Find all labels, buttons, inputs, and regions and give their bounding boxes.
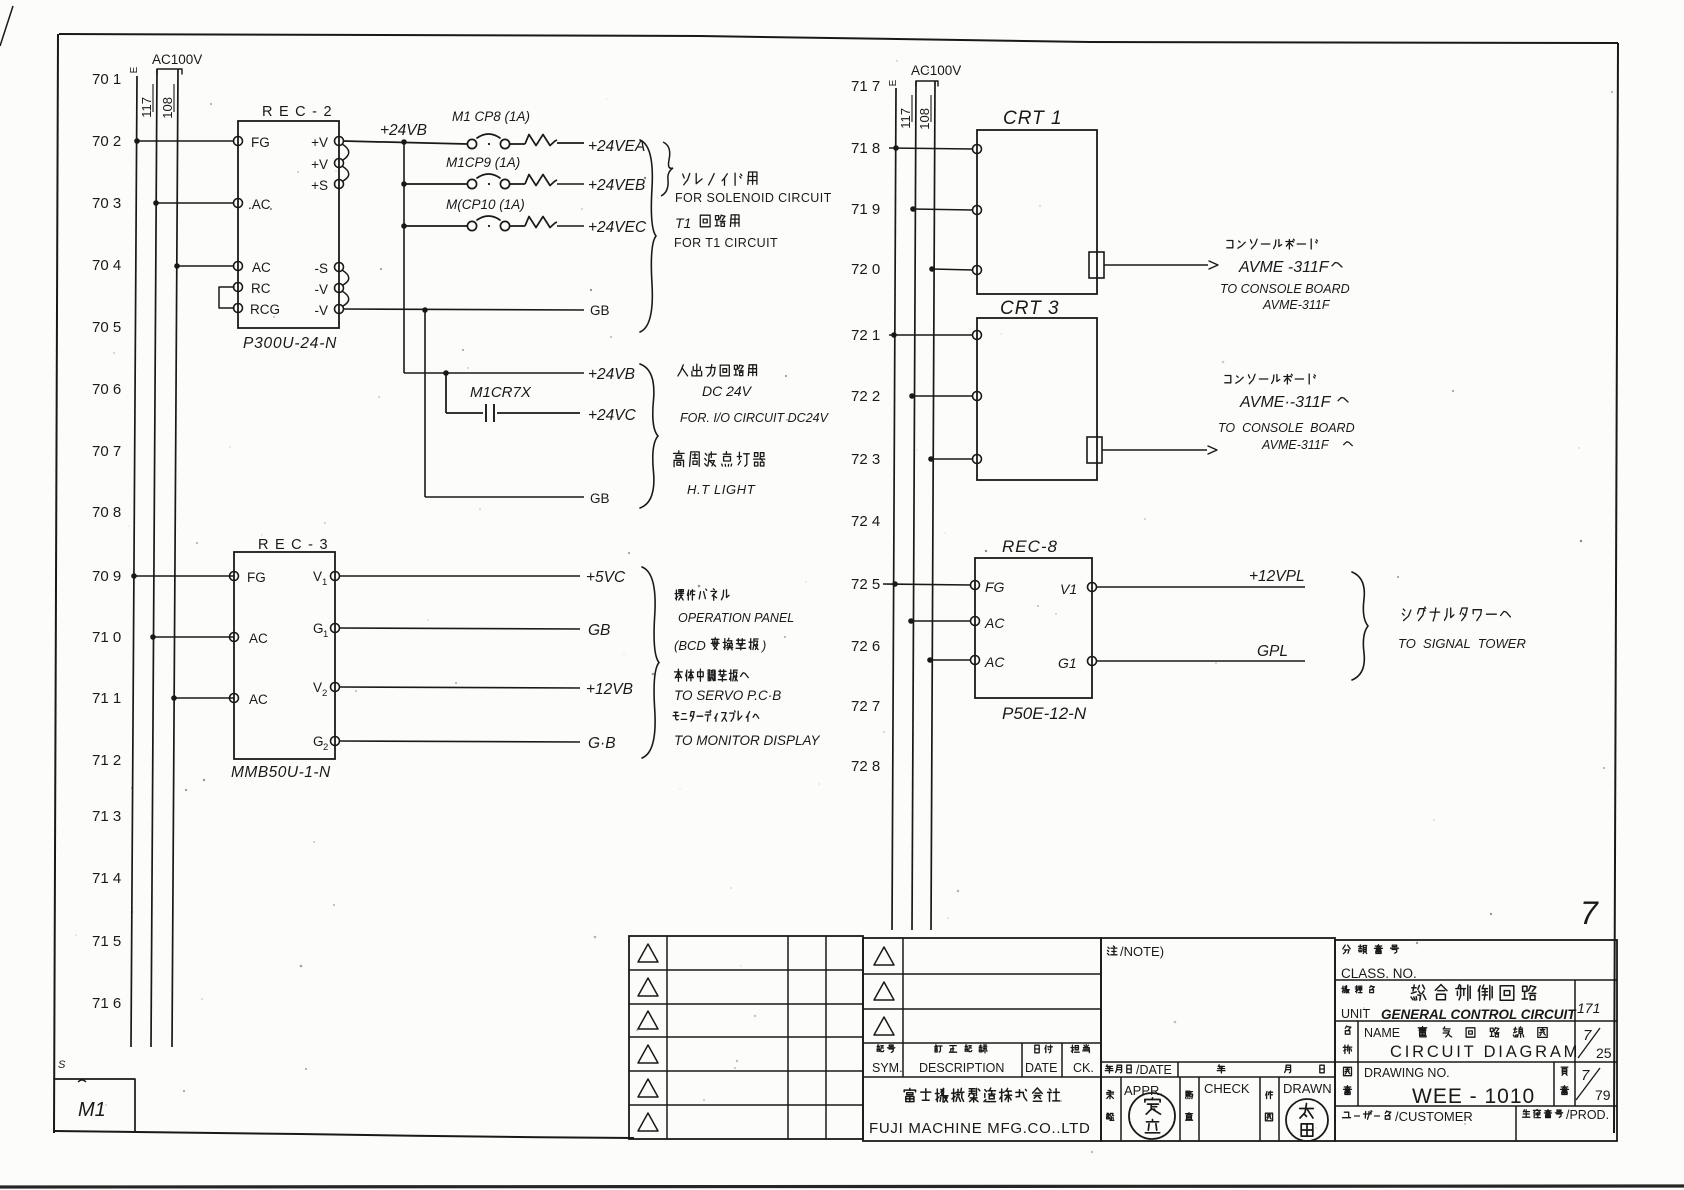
svg-text:+12VB: +12VB: [586, 681, 633, 698]
svg-text:TO SERVO P.C·B: TO SERVO P.C·B: [674, 688, 781, 703]
svg-text:DC 24V: DC 24V: [702, 383, 753, 399]
wire row 720 108 to CRT1: [929, 266, 973, 272]
REC-3 pin AC lower: [230, 692, 269, 707]
svg-text:E: E: [129, 66, 140, 73]
svg-text:M1CP9 (1A): M1CP9 (1A): [446, 155, 520, 170]
svg-text:71 0: 71 0: [92, 629, 121, 646]
wire row 710 117 to AC: [150, 634, 234, 640]
note BCD board japanese: [674, 638, 766, 653]
brace signal tower: [1352, 572, 1368, 680]
svg-text:+24VEB: +24VEB: [588, 177, 645, 194]
wire resistor to +24VEB: [557, 183, 584, 185]
node +24VB junction: [401, 139, 407, 145]
wire row 703 117 to AC: [153, 200, 234, 206]
wire row 725 E to FG: [883, 581, 971, 587]
label class no japanese: [1343, 945, 1399, 954]
header DATE cell: [1025, 1045, 1057, 1075]
label net +12VB: [586, 681, 633, 698]
svg-text:72 5: 72 5: [851, 576, 880, 593]
svg-text:+5VC: +5VC: [586, 569, 626, 586]
svg-text:AC: AC: [984, 654, 1005, 670]
title block right section: [1335, 940, 1617, 1141]
REC-3 pin FG: [230, 570, 266, 585]
wire to capacitor M1CR7X: [446, 373, 483, 413]
jumper RC to RCG: [219, 287, 234, 308]
wire row 711 108 to AC: [171, 695, 234, 701]
svg-text:72 4: 72 4: [851, 513, 880, 530]
svg-text:71 2: 71 2: [92, 752, 121, 769]
note signal tower japanese: [1402, 607, 1510, 621]
svg-text:-V: -V: [315, 282, 329, 297]
REC-2 pin AC upper: [234, 197, 271, 212]
REC-8 pin AC lower: [971, 654, 1006, 670]
sheet fraction 7 79: [1576, 1067, 1611, 1103]
note TO MONITOR DISPLAY: [674, 733, 821, 748]
svg-text:117: 117: [139, 97, 154, 118]
label drawing no japanese vertical: [1344, 1067, 1352, 1094]
label NOTE: [1107, 944, 1164, 959]
REC-8 pin AC upper: [971, 615, 1006, 631]
arrow CRT3 to console board: [1102, 446, 1217, 454]
AC100V source label right: [911, 63, 961, 86]
power supply REC-2 P300U-24-N: [238, 104, 339, 352]
wire net 117 right vertical: [912, 81, 916, 930]
AC100V source label left: [152, 52, 202, 74]
REC-2 pin +V upper: [311, 135, 343, 150]
svg-text:FOR SOLENOID CIRCUIT: FOR SOLENOID CIRCUIT: [675, 191, 832, 205]
svg-text:WEE - 1010: WEE - 1010: [1412, 1085, 1535, 1108]
svg-text:FUJI MACHINE MFG.CO..LTD: FUJI MACHINE MFG.CO..LTD: [869, 1120, 1091, 1137]
svg-text:TO CONSOLE BOARD: TO CONSOLE BOARD: [1220, 282, 1350, 296]
REC-2 pin RC: [234, 281, 271, 296]
svg-text:7: 7: [1580, 895, 1599, 931]
title CIRCUIT DIAGRAM: [1390, 1043, 1580, 1061]
label net GB lower: [590, 491, 610, 506]
REC-3 pin G2: [313, 734, 340, 753]
label CLASS NO: [1341, 966, 1417, 981]
sheet fraction 7 25: [1578, 1027, 1612, 1061]
svg-text:+24VB: +24VB: [588, 366, 635, 383]
svg-text:108: 108: [917, 108, 932, 130]
stamp DRAWN ota: [1286, 1099, 1328, 1141]
wire GB lower row: [425, 496, 584, 498]
REC-2 pin +V lower: [311, 157, 343, 172]
svg-text:TO CONSOLE BOARD: TO CONSOLE BOARD: [1218, 421, 1355, 435]
svg-text:70 6: 70 6: [92, 381, 121, 398]
svg-text:P50E-12-N: P50E-12-N: [1002, 704, 1087, 723]
svg-text:70 2: 70 2: [92, 133, 121, 150]
svg-text:72 8: 72 8: [851, 758, 880, 775]
note io circuit japanese: [678, 364, 757, 376]
revision triangles middle column: [874, 947, 894, 1035]
wire GB vertical feeder: [424, 310, 426, 497]
wire G1 to GB: [339, 628, 580, 629]
note AVME-311F 1: [1238, 259, 1342, 276]
svg-text:72 6: 72 6: [851, 638, 880, 655]
svg-text:2: 2: [322, 688, 327, 699]
drawing number WEE-1010: [1412, 1085, 1535, 1108]
svg-text:T1: T1: [675, 215, 691, 231]
REC-3 pin V2: [313, 680, 340, 699]
svg-text:GB: GB: [588, 622, 610, 639]
capacitor M1CR7X: [470, 384, 532, 422]
label page japanese vertical: [1561, 1067, 1569, 1094]
wire G1 to GPL: [1096, 660, 1305, 662]
header DESCRIPTION cell: [919, 1045, 1004, 1075]
wire fuse CP10 to resistor: [510, 225, 525, 227]
label net +24VB lower: [588, 366, 635, 383]
label net GB upper: [590, 303, 610, 318]
wire V1 to +5VC: [339, 575, 580, 577]
svg-text:1: 1: [322, 577, 327, 588]
title block revision table left: [629, 936, 863, 1139]
label UNIT: [1341, 1007, 1371, 1021]
svg-text:S: S: [58, 1059, 66, 1071]
svg-text:25: 25: [1596, 1045, 1612, 1061]
REC-8 pin V1: [1060, 581, 1097, 597]
wire +24VB vertical feeder: [403, 142, 405, 373]
label DRAWING NO: [1364, 1066, 1450, 1080]
svg-text:72 2: 72 2: [851, 388, 880, 405]
svg-text:V: V: [313, 569, 322, 584]
svg-text:79: 79: [1595, 1087, 1611, 1103]
wire resistor to +24VEC: [557, 225, 584, 227]
svg-text:/CUSTOMER: /CUSTOMER: [1395, 1109, 1473, 1124]
circuit protector M1 CP8 1A: [452, 109, 530, 149]
wire fuse CP9 to resistor: [510, 183, 525, 185]
resistor after CP10: [525, 217, 557, 228]
circuit protector M1CP9 1A: [446, 155, 520, 189]
svg-text:72 3: 72 3: [851, 451, 880, 468]
net 117 label right: [898, 95, 913, 129]
svg-text:OPERATION PANEL: OPERATION PANEL: [678, 611, 794, 625]
svg-text:72 1: 72 1: [851, 327, 880, 344]
svg-text:V: V: [313, 680, 322, 695]
label net +24VB: [380, 122, 427, 139]
jumper +V to +V: [342, 144, 349, 160]
title general control circuit japanese handwritten: [1411, 985, 1536, 1001]
monitor CRT 1: [977, 108, 1097, 294]
company name fuji japanese: [904, 1088, 1059, 1102]
svg-text:REC-8: REC-8: [1002, 537, 1058, 556]
svg-text:FG: FG: [251, 135, 270, 150]
svg-text:M1CR7X: M1CR7X: [470, 384, 532, 401]
wire row 721 E to CRT3: [889, 332, 973, 338]
svg-text:70 5: 70 5: [92, 319, 121, 336]
svg-text:71 4: 71 4: [92, 870, 121, 887]
wire fuse CP8 to resistor: [510, 143, 525, 145]
label DRAWN: [1265, 1081, 1331, 1121]
note 171 handwritten: [1577, 1000, 1600, 1016]
resistor after CP8: [525, 135, 557, 146]
svg-text:GPL: GPL: [1257, 643, 1288, 660]
REC-2 pin -V lower: [315, 303, 344, 318]
jumper -V to -V: [342, 291, 349, 306]
CRT3 pin row 722: [973, 392, 982, 401]
note TO CONSOLE BOARD 1: [1220, 282, 1350, 296]
row labels 701-716: [92, 71, 121, 1012]
svg-text:+V: +V: [311, 157, 328, 172]
wire row 709 E to FG: [131, 573, 234, 579]
svg-text:CRT 1: CRT 1: [1003, 108, 1063, 129]
svg-text:70 7: 70 7: [92, 443, 121, 460]
svg-text:RC: RC: [251, 281, 271, 296]
brace small solenoid: [661, 142, 673, 196]
svg-text:DATE: DATE: [1025, 1061, 1057, 1075]
note TO CONSOLE BOARD 2: [1218, 421, 1355, 435]
svg-text:72 7: 72 7: [851, 698, 880, 715]
note AVME-311F sub 2: [1261, 438, 1352, 452]
svg-text:AVME -311F: AVME -311F: [1238, 259, 1330, 276]
wire net 108 right vertical: [931, 81, 935, 930]
svg-text:AC: AC: [249, 692, 268, 707]
svg-text:AC: AC: [984, 615, 1005, 631]
svg-text:/PROD.: /PROD.: [1566, 1108, 1609, 1122]
wire row 723 108 to CRT3: [928, 456, 973, 462]
svg-text:UNIT: UNIT: [1341, 1007, 1371, 1021]
label unit name japanese: [1342, 986, 1374, 993]
svg-text:+V: +V: [311, 135, 328, 150]
label CHECK: [1186, 1081, 1250, 1120]
label net GPL: [1257, 643, 1288, 660]
brace solenoid group: [640, 140, 656, 332]
label net +5VC: [586, 569, 626, 586]
svg-text:71 3: 71 3: [92, 808, 121, 825]
REC-8 pin G1: [1058, 655, 1097, 671]
svg-text:FOR T1 CIRCUIT: FOR T1 CIRCUIT: [674, 236, 778, 250]
svg-text:171: 171: [1577, 1000, 1600, 1016]
svg-text:71 7: 71 7: [851, 78, 880, 95]
svg-text:7: 7: [1581, 1067, 1590, 1084]
REC-2 pin AC lower: [234, 260, 272, 275]
CRT3 connector: [1087, 437, 1102, 463]
svg-text:/DATE: /DATE: [1136, 1063, 1172, 1077]
header CK cell: [1071, 1045, 1094, 1075]
wire resistor to +24VEA: [557, 142, 584, 144]
wire +V output to +24VB node: [343, 141, 467, 144]
svg-text:CK.: CK.: [1073, 1061, 1094, 1075]
svg-text:AVME-311F: AVME-311F: [1261, 438, 1330, 452]
note TO SIGNAL TOWER: [1398, 636, 1526, 651]
net 108 label right: [917, 95, 932, 130]
svg-text:RCG: RCG: [250, 302, 280, 317]
stamp APPR sadatachi: [1129, 1093, 1175, 1139]
note TO SERVO P.C.B: [674, 688, 781, 703]
wire capacitor to +24VC: [497, 412, 580, 414]
note T1 circuit japanese: [675, 215, 739, 231]
label net G.B: [588, 735, 616, 752]
row labels 717-728: [851, 78, 880, 775]
wire row 719 117 to CRT1: [910, 206, 973, 212]
note operation panel japanese: [675, 589, 729, 601]
CRT1 pin row 718: [973, 145, 982, 154]
svg-text:REC-2: REC-2: [262, 104, 338, 120]
note FOR IO CIRCUIT DC24V: [680, 411, 830, 425]
CRT3 pin row 721: [973, 331, 982, 340]
svg-text:G: G: [313, 734, 324, 749]
svg-text:TO MONITOR DISPLAY: TO MONITOR DISPLAY: [674, 733, 821, 748]
title circuit diagram japanese: [1418, 1027, 1547, 1038]
svg-text:117: 117: [898, 108, 913, 129]
CRT1 connector: [1089, 252, 1104, 278]
svg-text:P300U-24-N: P300U-24-N: [243, 335, 337, 352]
svg-text:70 3: 70 3: [92, 195, 121, 212]
svg-text:72 0: 72 0: [851, 261, 880, 278]
label name japanese vertical: [1343, 1026, 1351, 1054]
note ht light japanese: [674, 451, 765, 467]
svg-text:71 9: 71 9: [851, 201, 880, 218]
note FOR T1 CIRCUIT: [674, 236, 778, 250]
note OPERATION PANEL: [678, 611, 794, 625]
page number 7 handwritten: [1580, 895, 1599, 931]
svg-text:CLASS. NO.: CLASS. NO.: [1341, 966, 1417, 981]
wire row CP9 from feeder: [401, 181, 467, 187]
header SYM cell: [872, 1045, 903, 1075]
svg-text:CIRCUIT DIAGRAM: CIRCUIT DIAGRAM: [1390, 1043, 1580, 1061]
svg-text:+12VPL: +12VPL: [1249, 568, 1305, 585]
note AVME-311F sub 1: [1262, 298, 1331, 312]
svg-text:70 8: 70 8: [92, 504, 121, 521]
title block revision table middle: [863, 938, 1101, 1141]
note solenoid japanese: [683, 172, 757, 185]
wire net 117 left vertical: [151, 69, 157, 1047]
svg-text:NAME: NAME: [1364, 1026, 1400, 1040]
svg-text:+24VEC: +24VEC: [588, 219, 647, 236]
net E label right: [888, 79, 899, 86]
svg-text:DRAWING NO.: DRAWING NO.: [1364, 1066, 1450, 1080]
label net +12VPL: [1249, 568, 1305, 585]
REC-2 pin -V upper: [315, 282, 344, 297]
page bottom scan edge: [0, 1186, 1684, 1187]
company name FUJI MACHINE MFG: [869, 1120, 1091, 1137]
CRT1 pin row 719: [973, 206, 982, 215]
label net +24VEC: [588, 219, 647, 236]
label prod japanese: [1523, 1108, 1609, 1122]
svg-text:CRT 3: CRT 3: [1000, 298, 1060, 319]
svg-text:V1: V1: [1060, 581, 1077, 597]
wire V2 to +12VB: [339, 687, 580, 688]
svg-text:AC100V: AC100V: [911, 63, 961, 78]
svg-text:71 5: 71 5: [92, 933, 121, 950]
label net GB panel: [588, 622, 610, 639]
svg-text:GB: GB: [590, 303, 610, 318]
stamp row cells: [1121, 1077, 1279, 1141]
wire G2 to GB monitor: [339, 741, 580, 742]
svg-text:71 1: 71 1: [92, 690, 121, 707]
svg-text:G·B: G·B: [588, 735, 616, 752]
svg-text:71 6: 71 6: [92, 995, 121, 1012]
svg-text:MMB50U-1-N: MMB50U-1-N: [231, 764, 331, 781]
svg-text:AC: AC: [249, 631, 268, 646]
svg-text:-S: -S: [315, 261, 329, 276]
svg-text:REC-3: REC-3: [258, 537, 334, 553]
svg-text:71 8: 71 8: [851, 140, 880, 157]
svg-text:CHECK: CHECK: [1204, 1081, 1250, 1096]
label APPR approval: [1107, 1083, 1163, 1120]
svg-text:GENERAL CONTROL CIRCUIT: GENERAL CONTROL CIRCUIT: [1381, 1007, 1577, 1022]
svg-text:M(CP10 (1A): M(CP10 (1A): [446, 197, 525, 212]
net E label left: [129, 66, 140, 73]
title block note section: [1101, 938, 1335, 1141]
title GENERAL CONTROL CIRCUIT: [1381, 1007, 1577, 1022]
wire net E left vertical: [131, 76, 137, 1047]
svg-text:+24VB: +24VB: [380, 122, 427, 139]
svg-text:G: G: [313, 621, 324, 636]
REC-3 pin AC upper: [230, 631, 269, 646]
wire net 108 left vertical: [172, 69, 178, 1047]
jumper +V to +S: [342, 166, 349, 181]
jumper -S to -V: [342, 270, 349, 285]
power supply REC-8 P50E-12-N: [975, 537, 1092, 723]
wire V1 to +12VPL: [1096, 586, 1305, 588]
svg-text:FG: FG: [985, 579, 1005, 595]
note H.T LIGHT: [687, 482, 756, 497]
note to monitor japanese: [673, 710, 759, 721]
svg-text:TO SIGNAL TOWER: TO SIGNAL TOWER: [1398, 636, 1526, 651]
svg-text:70 1: 70 1: [92, 71, 121, 88]
note console board japanese 1: [1227, 239, 1318, 249]
wire row 718 E to CRT1: [889, 145, 973, 151]
svg-text:AC100V: AC100V: [152, 52, 202, 67]
wire 117 to REC-8 AC: [908, 618, 971, 624]
svg-text:SYM.: SYM.: [872, 1061, 903, 1075]
corner scan artifact: [0, 6, 13, 46]
note console board japanese 2: [1225, 374, 1316, 384]
label net +24VEB: [588, 177, 645, 194]
svg-text:H.T LIGHT: H.T LIGHT: [687, 482, 756, 497]
REC-8 pin FG: [971, 579, 1005, 595]
svg-text:/NOTE): /NOTE): [1120, 944, 1164, 959]
svg-text:.AC: .AC: [248, 197, 271, 212]
svg-text:FG: FG: [247, 570, 266, 585]
wire row CP10 from feeder: [401, 223, 467, 229]
label net +24VEA: [588, 138, 645, 155]
svg-text:(BCD: (BCD: [674, 638, 706, 653]
svg-text:M1: M1: [78, 1099, 106, 1121]
wire row 702 E to FG: [134, 138, 234, 144]
svg-text:APPR.: APPR.: [1124, 1083, 1163, 1098]
REC-2 pin -S: [315, 261, 344, 276]
net 117 label left: [139, 84, 154, 118]
mark S small: [58, 1059, 66, 1071]
svg-text:E: E: [888, 79, 899, 86]
header DATE row: [1105, 1063, 1324, 1077]
REC-2 pin +S: [311, 178, 343, 193]
svg-text:DESCRIPTION: DESCRIPTION: [919, 1061, 1004, 1075]
revision triangles left column: [638, 944, 658, 1131]
svg-text:108: 108: [160, 97, 175, 119]
REC-2 pin RCG: [234, 302, 281, 317]
svg-text:FOR. I/O CIRCUIT DC24V: FOR. I/O CIRCUIT DC24V: [680, 411, 830, 425]
svg-text:AVME-311F: AVME-311F: [1262, 298, 1331, 312]
svg-text:AC: AC: [252, 260, 271, 275]
label net +24VC: [588, 407, 637, 424]
svg-text:+24VC: +24VC: [588, 407, 637, 424]
CRT3 pin row 723: [973, 455, 982, 464]
net 108 label left: [160, 84, 175, 119]
svg-text:AVME·-311F: AVME·-311F: [1239, 394, 1332, 411]
REC-3 pin V1: [313, 569, 340, 588]
wire row 704 108 to AC: [174, 263, 234, 269]
monitor CRT 3: [977, 298, 1097, 480]
svg-text:G1: G1: [1058, 655, 1077, 671]
svg-text:DRAWN: DRAWN: [1283, 1081, 1332, 1096]
label customer japanese: [1343, 1109, 1473, 1124]
note AVME-311F 2: [1239, 394, 1348, 411]
note DC 24V: [702, 383, 753, 399]
svg-text:70 4: 70 4: [92, 257, 121, 274]
label NAME: [1364, 1026, 1400, 1040]
